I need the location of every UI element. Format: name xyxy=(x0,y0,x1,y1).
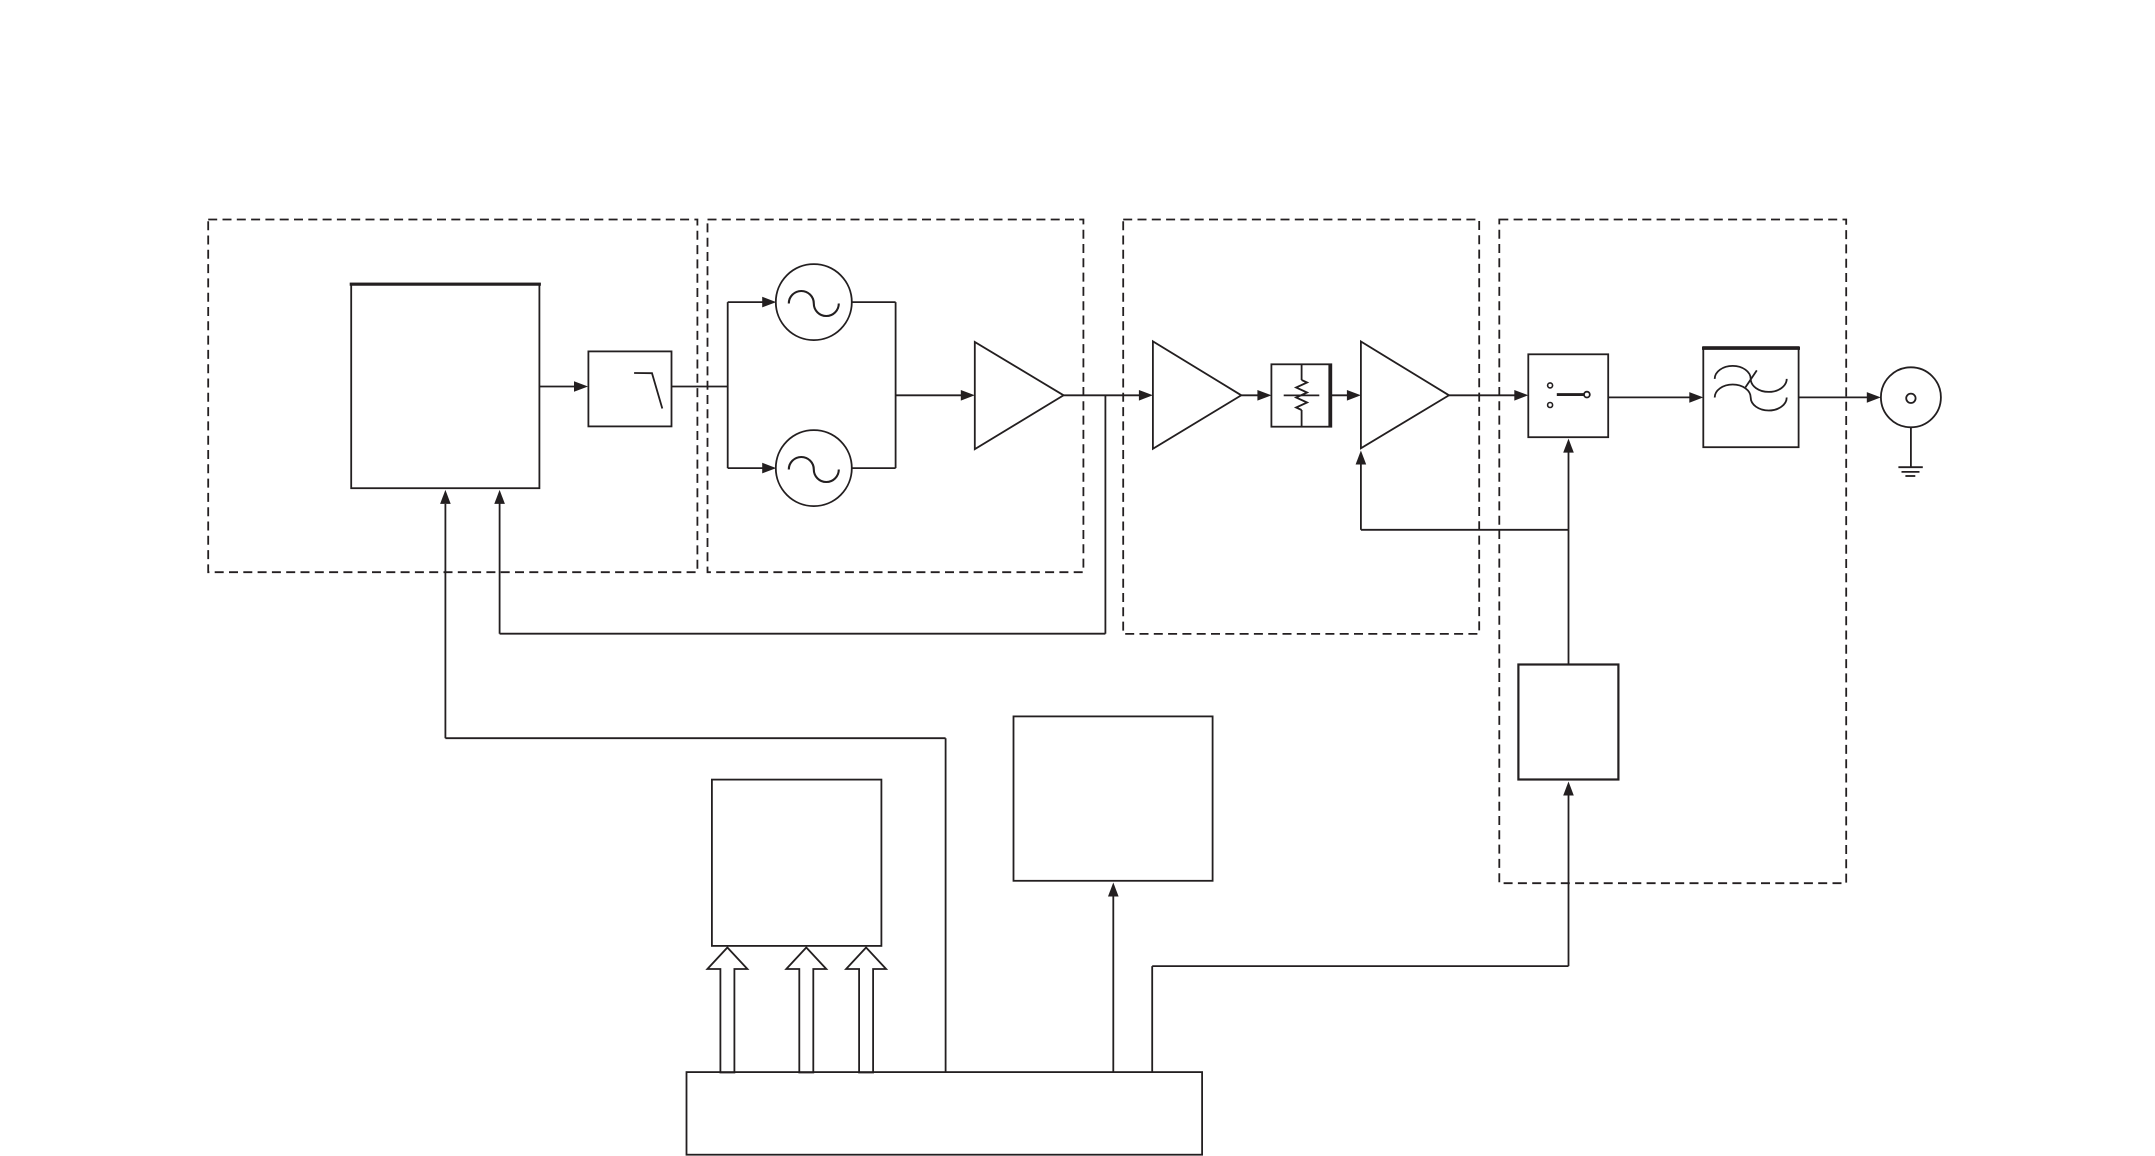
filter FL2: output low-pass filter xyxy=(1703,347,1798,447)
wire: S1 output to low-pass filter FL2 xyxy=(1608,396,1690,398)
oscillator G1 (top sine source) xyxy=(776,264,852,340)
wire: AT1 output to amplifier A3 xyxy=(1331,394,1347,396)
wire: splitter vertical xyxy=(727,302,729,468)
block U1: synthesizer block (large rectangle) xyxy=(351,284,539,489)
block U4: reference/input box with bus arrows xyxy=(712,780,882,946)
wire: FL2 to output connector xyxy=(1799,396,1868,398)
dashed block: reference/PLL section (box 1) xyxy=(208,220,697,573)
ground xyxy=(1910,427,1912,467)
wire: control from bus to U3 bottom xyxy=(1568,796,1570,967)
wire: combiner to amplifier A1 xyxy=(896,394,962,396)
op-amp A3: output amplifier xyxy=(1361,342,1449,449)
wire: splitter to oscillator G1 xyxy=(728,301,763,303)
block U6: interface bus (long bottom rectangle) xyxy=(687,1072,1203,1155)
wire: G2 output to combiner xyxy=(852,467,896,469)
wire: hollow bus arrow 3 xyxy=(846,948,886,1073)
dashed block: output section (box 4) xyxy=(1499,220,1846,884)
oscillator G2 (bottom sine source) xyxy=(776,430,852,506)
block U5: control/CPU box (middle rectangle) xyxy=(1014,716,1213,880)
switch S1: output relay block xyxy=(1528,354,1608,437)
op-amp A2: driver amplifier xyxy=(1153,341,1241,449)
connector X1: RF output jack xyxy=(1881,367,1941,427)
node J1: feedback tap to synthesizer xyxy=(1104,395,1106,633)
wire: G1 output to combiner xyxy=(852,301,896,303)
wire: hollow bus arrow 1 xyxy=(707,948,747,1073)
block U3: detector/modulator control box xyxy=(1518,665,1618,780)
wire: FL1 to oscillator splitter xyxy=(672,386,728,388)
filter FL1: low-pass roll-off block xyxy=(588,351,671,426)
wire: bus to U5 bottom xyxy=(1112,897,1114,1073)
wire: feedback run to U1 lower-right input xyxy=(500,633,1106,635)
wire: ALC feedback from A3 bottom vertex xyxy=(1360,465,1362,530)
wire: U1 output to filter FL1 xyxy=(539,386,575,388)
dashed block: oscillator section (box 2) xyxy=(708,220,1084,573)
dashed block: gain/ALC section (box 3) xyxy=(1123,220,1479,634)
wire: hollow bus arrow 2 xyxy=(786,948,826,1073)
op-amp A1: buffer amplifier xyxy=(975,342,1064,449)
wire: control line from S1 node down to detector box xyxy=(1568,530,1570,665)
wire: detector line up into S1 bottom xyxy=(1568,452,1570,530)
wire: bus to U1 lower-left input xyxy=(945,738,947,1072)
wire: A2 output to attenuator AT1 xyxy=(1241,394,1258,396)
wire: combiner vertical xyxy=(895,302,897,468)
wire: A3 output to switch S1 xyxy=(1449,394,1515,396)
wire: A1 output to node J1 and amplifier A2 xyxy=(1064,394,1140,396)
attenuator AT1: modulator/leveler block xyxy=(1271,364,1331,426)
wire: splitter to oscillator G2 xyxy=(728,467,763,469)
